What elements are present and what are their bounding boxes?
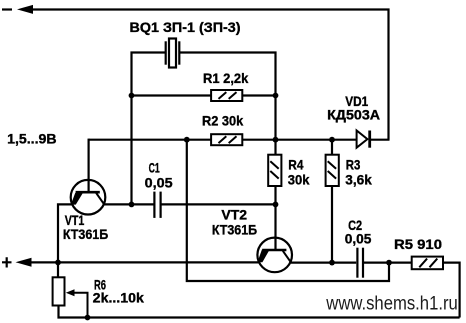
wire C2 right to R5 and down right side [364,263,460,318]
capacitor C1 [153,192,155,218]
svg-text:2k...10k: 2k...10k [93,290,144,306]
wire C1 left [132,203,154,205]
svg-text:VT2: VT2 [221,207,247,223]
resistor R1 [211,90,242,101]
wire main horizontal net y=139.7 [89,139,356,141]
svg-text:0,05: 0,05 [345,231,372,247]
svg-text:BQ1 ЗП-1 (ЗП-3): BQ1 ЗП-1 (ЗП-3) [130,19,241,35]
svg-text:КТ361Б: КТ361Б [63,226,108,242]
wire plus rail [27,261,259,263]
wire R6 wiper tail [72,293,88,318]
wire C1 right to VT2 base node [161,203,275,205]
svg-text:R3: R3 [346,157,361,173]
svg-text:КТ361Б: КТ361Б [212,222,257,238]
wire VT1 emitter to left rail down to R6 [58,204,72,277]
svg-text:КД503А: КД503А [327,107,380,123]
wire R3 branch [331,140,333,263]
variable resistor R6 [53,277,65,305]
arrow R6 wiper [66,289,75,296]
wire VT2 collector to C2 [291,262,357,264]
svg-text:1,5...9В: 1,5...9В [7,131,57,147]
minus terminal dash [2,8,12,10]
capacitor C2 [356,248,358,278]
svg-text:R5 910: R5 910 [394,236,442,252]
wire VT1 base drop [87,139,89,192]
transistor VT2 [257,238,292,273]
svg-text:3,6k: 3,6k [345,172,372,188]
wire R1 branch [132,94,276,96]
arrow plus rail [16,258,32,267]
wire top rail and right rail [28,10,389,140]
wire piezo loop right side / rail to VT2 base [180,53,276,251]
svg-text:R1 2,2k: R1 2,2k [203,70,248,86]
resistor R4 [268,155,281,186]
transistor VT1 [71,180,106,215]
plus sign [2,257,12,267]
resistor R5 [412,257,443,270]
piezo buzzer BQ1 plates [165,41,167,64]
junction node dots [129,93,135,99]
wire feedback x=186.8 down and across to C2 right node [187,140,389,281]
svg-text:R2 30k: R2 30k [202,112,243,128]
wire piezo loop left rail [132,53,166,205]
svg-text:R4: R4 [288,157,303,173]
diode VD1 [357,131,368,148]
resistor R3 [326,155,339,186]
svg-text:30k: 30k [288,172,310,188]
wire VT1 collector [104,203,132,205]
wire diode cathode to right rail [371,139,390,141]
wire bottom rail [59,306,460,318]
piezo buzzer BQ1 crystal body [169,39,176,68]
svg-text:www.shems.h1.ru: www.shems.h1.ru [325,293,457,314]
resistor R2 [211,134,242,145]
arrow minus rail [17,5,33,14]
svg-text:C1: C1 [149,159,160,175]
svg-text:0,05: 0,05 [145,174,173,190]
